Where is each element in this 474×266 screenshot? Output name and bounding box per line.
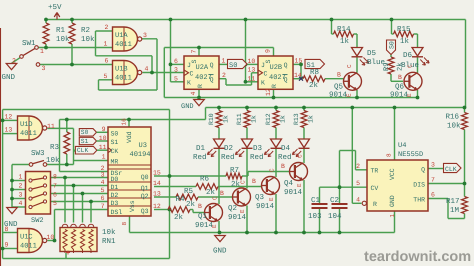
wire S0 flag stub [97,131,109,133]
wire +5V right drop [465,20,467,108]
wire U2A K [171,81,185,83]
net flag S1 U3 [79,137,96,144]
svg-text:8: 8 [53,174,57,181]
svg-text:D5: D5 [367,50,377,58]
wire R14 to D5 [354,33,358,35]
svg-text:R8: R8 [310,68,319,77]
node R3 bottom [65,163,69,167]
svg-text:40194: 40194 [130,151,151,159]
nand U1B [113,61,138,85]
svg-text:9014: 9014 [228,213,247,222]
node R12 rail [274,106,278,110]
wire THR link [428,198,448,200]
svg-text:D4: D4 [281,145,291,153]
svg-text:R1: R1 [56,27,66,35]
svg-text:5: 5 [53,200,57,207]
wire MR [74,160,109,162]
wire U1D out [48,127,74,129]
svg-text:1: 1 [389,214,396,218]
wire R17 top [464,184,466,197]
svg-text:4011: 4011 [115,75,132,83]
wire U1B out to U2A clock [143,72,185,74]
svg-text:D3: D3 [253,144,263,153]
wire SW1 common to GND [12,58,21,64]
net flag S0 mid [228,59,248,68]
resistor R13 [301,111,307,128]
node U1B out [150,71,154,75]
wire R6 to Q3 base [218,186,262,188]
wire SW2 pin4 [12,206,26,208]
node U2A Q flag [244,63,248,67]
svg-text:D1: D1 [196,145,206,153]
wire R11 to D2 [246,128,248,140]
svg-text:R14: R14 [337,26,351,34]
svg-text:10k: 10k [46,156,60,165]
svg-text:R12: R12 [265,113,272,125]
svg-text:2: 2 [222,72,226,79]
wire U2A S pin [198,48,200,57]
svg-text:11: 11 [248,76,256,83]
wire U2B S pin [273,48,275,57]
svg-text:7: 7 [53,183,57,190]
transistor Q3 9014 [262,177,280,195]
svg-text:2: 2 [19,183,23,190]
resistor R15 [394,31,414,37]
svg-text:104: 104 [328,212,342,221]
svg-text:C1: C1 [311,196,321,205]
wire U2B R pin to GND rail [273,89,275,97]
transistor Q5 9014 [344,72,362,90]
node U2A S [197,46,201,50]
ground U2A reset [194,100,205,106]
wire U1A out feedback right [141,38,158,40]
svg-text:C: C [297,154,304,158]
svg-text:1k: 1k [400,37,410,46]
svg-text:R7: R7 [230,167,239,175]
wire C1 top lead [319,187,321,203]
resistor R9 [388,57,394,74]
svg-text:U4: U4 [398,142,406,150]
wire RN1 drop b [73,186,75,223]
wire SW2 pin3 [12,198,26,200]
svg-text:Red: Red [250,153,264,162]
svg-text:9014: 9014 [256,202,275,211]
svg-text:D0: D0 [111,176,119,183]
svg-text:GND: GND [389,195,396,207]
node DIS R16 R17 [463,182,467,186]
node R15 tap [390,18,394,22]
wire U1D in13 [3,133,18,135]
svg-text:16: 16 [121,118,128,126]
wire U2A Qbar right [219,78,226,80]
node U1C out DSl [53,239,57,243]
svg-text:Q4: Q4 [284,179,294,188]
svg-text:1k: 1k [223,115,230,123]
wire RN1 drop a [64,178,66,223]
svg-text:teardownit.com: teardownit.com [364,249,471,265]
svg-text:K: K [261,80,265,87]
wire U2A R pin to GND rail [198,89,200,97]
svg-text:1: 1 [222,58,226,65]
node R16 rail [463,106,467,110]
svg-text:10k: 10k [447,122,461,131]
svg-text:1: 1 [19,174,23,181]
svg-text:GND: GND [213,247,227,256]
wire SW3 left [12,164,29,166]
svg-text:6: 6 [174,58,178,65]
svg-text:NE555D: NE555D [398,151,423,159]
wire U1C in8 [3,232,18,234]
svg-text:K: K [187,80,191,87]
wire +5V mid rail left part [60,119,206,121]
svg-text:S0: S0 [389,41,396,49]
wire R10 top [218,108,220,111]
LED D4 [299,139,310,148]
wire set line drop to GND [163,48,165,98]
node U2B K [244,80,248,84]
svg-text:3: 3 [143,32,147,39]
wire Q0 row [154,175,226,177]
wire R8 left lead [301,78,303,80]
wire R1 top [45,20,47,24]
wire feedback left [96,55,153,57]
svg-text:5: 5 [174,76,178,83]
svg-text:B: B [252,178,256,185]
wire R3 bottom stub [66,154,68,165]
wire D0 row [51,177,109,179]
node SW2 p1 [10,179,14,183]
wire Q3 row to R4 [154,209,168,211]
svg-text:R11: R11 [236,113,243,125]
wire D1 to Q1 collector [218,149,220,204]
transistor Q4 9014 [290,163,308,181]
svg-text:5: 5 [356,180,360,187]
LED D1 [214,139,225,148]
svg-text:11: 11 [99,144,107,151]
wire U2A Qbar jog [225,79,227,85]
wire U2A J [171,63,185,65]
node U1D in tie [1,119,5,123]
wire R2 bottom [71,44,73,65]
svg-text:9: 9 [265,49,272,53]
dip switch SW2 [26,172,51,215]
svg-text:S: S [265,59,272,63]
transistor Q6 9014 [404,72,422,90]
svg-text:4027: 4027 [269,74,286,82]
wire Q6 emitter to GND rail [417,90,419,98]
svg-text:Red: Red [193,153,207,162]
svg-text:U1C: U1C [20,234,33,242]
wire R11 top [246,108,248,111]
svg-text:CK: CK [111,148,119,155]
transistor Q2 9014 [233,188,251,206]
svg-text:103: 103 [308,212,322,221]
wire R2 top [71,20,73,24]
node R10 rail [217,106,221,110]
RN1 common pin marker [66,251,70,255]
svg-text:C: C [346,64,353,68]
svg-text:S: S [191,59,198,63]
timer U4 NE555D [367,160,428,211]
wire U2B J [246,63,259,65]
node U4 vcc rail [393,106,397,110]
resistor R10 [216,111,222,128]
svg-text:13: 13 [153,191,161,198]
wire +5V top rail [46,19,466,21]
node C1 gnd [318,231,322,235]
wire U3 Vss pin [129,216,131,233]
wire U2B K [246,81,259,83]
node U1C in tie [1,247,5,251]
svg-text:R16: R16 [446,113,460,122]
node R11 rail [245,106,249,110]
svg-text:4011: 4011 [20,243,37,251]
wire feedback up to U1A.2 [95,31,97,56]
svg-text:3: 3 [174,67,178,74]
svg-text:S0: S0 [229,62,237,70]
svg-text:4: 4 [190,92,197,96]
svg-text:E: E [268,197,275,201]
flip-flop U2A 4027 [184,56,219,89]
node R3 top [65,118,69,122]
wire SW1 pos3 row to U1B.6 [40,64,113,66]
svg-text:12: 12 [153,203,161,210]
node Q3 emitter gnd [274,231,278,235]
wire U3 Vdd pin [128,120,130,128]
node Q4 emitter gnd [302,231,306,235]
svg-text:10k: 10k [102,228,116,237]
node D2 RN1 [81,192,85,196]
wire Q1 emitter [218,221,220,233]
svg-text:2k: 2k [186,200,196,209]
svg-text:D6: D6 [403,51,413,60]
net flag CLK U3 [75,146,97,154]
svg-text:4: 4 [19,200,23,207]
wire SW2 pin1 [12,180,26,182]
node J/K tie U2A top [169,18,173,22]
svg-text:Q3: Q3 [141,208,149,215]
svg-text:9014: 9014 [284,188,303,197]
svg-text:R3: R3 [50,143,60,152]
svg-text:1: 1 [102,154,106,161]
wire Q4 emitter [303,180,305,233]
svg-text:S0: S0 [111,130,119,137]
wire GND bottom rail [130,232,395,234]
svg-text:2: 2 [105,24,109,31]
svg-text:3: 3 [42,65,46,72]
svg-text:C: C [264,71,268,78]
wire R12 to D3 [275,128,277,140]
svg-text:R: R [197,84,204,88]
svg-text:B: B [220,190,224,197]
wire R3 top stub [66,120,68,133]
svg-text:10: 10 [47,234,55,241]
wire U2B Q to S1 [292,63,301,65]
svg-text:R5: R5 [184,188,194,196]
wire U4 reset feed drop [351,108,353,204]
svg-text:10: 10 [99,135,107,142]
svg-text:THR: THR [413,197,425,204]
svg-text:9014: 9014 [329,91,348,100]
svg-text:1k: 1k [280,115,287,123]
svg-text:2: 2 [356,163,360,170]
svg-text:10: 10 [248,58,256,65]
wire U1A out up to U1B.5 [98,80,100,90]
node Q0 inverter tap [168,174,172,178]
LED D6 [412,48,423,57]
svg-text:R17: R17 [446,198,460,206]
svg-text:C: C [190,71,194,78]
svg-text:7: 7 [431,177,435,184]
wire +5V mid rail jog [205,108,207,120]
svg-text:VCC: VCC [389,168,396,180]
svg-text:4011: 4011 [20,130,37,138]
svg-text:15: 15 [153,170,161,177]
svg-text:Q: Q [210,62,214,69]
wire R15 drop [391,20,393,35]
node R13 rail [302,106,306,110]
svg-text:R6: R6 [200,175,210,184]
node R2 top rail [70,18,74,22]
ground GND SW2 [7,208,18,214]
resistor R6 [196,184,218,190]
wire R17 bottom [464,214,466,219]
wire caps line to CV [320,186,368,188]
svg-text:6: 6 [105,58,109,65]
svg-text:1M: 1M [450,207,460,215]
wire Q5 emitter to GND rail [356,90,358,98]
node C2 gnd [338,231,342,235]
svg-text:C: C [269,168,276,172]
svg-text:8: 8 [5,226,9,233]
wire R15 to D6 [414,33,418,35]
wire R1 bottom to SW1/U1A.1 [45,44,47,48]
svg-text:DIS: DIS [413,182,425,189]
resistor R16 [462,113,468,130]
node U3 Vdd [127,118,131,122]
svg-text:U2B: U2B [270,64,283,72]
wire DSl row [55,209,109,211]
wire C2 top lead [339,151,341,204]
resistor R12 [273,111,279,128]
resistor R3 [64,132,70,154]
svg-text:10k: 10k [81,35,95,44]
transistor Q1 9014 [205,204,223,222]
svg-text:R4: R4 [176,196,186,204]
node U2B R gnd [272,96,276,100]
wire U1D input tie [2,110,4,259]
nand U1D [18,116,43,140]
sheet frame left edge [0,28,2,266]
wire U1A out down [156,39,158,90]
node SW2 p3 [10,197,14,201]
wire J/K tie U2B [245,20,247,82]
wire input line top [3,109,170,111]
wire D5 to Q5 collector [356,57,358,73]
node R4 row tap [168,208,172,212]
svg-text:R13: R13 [293,113,300,125]
svg-text:5: 5 [104,73,108,80]
wire TR branch [340,150,356,152]
svg-text:C: C [240,180,247,184]
node reset feed [350,106,354,110]
svg-text:9: 9 [5,242,9,249]
svg-text:9014: 9014 [390,91,409,100]
node R1 top rail [44,18,48,22]
wire C1 bottom lead [319,209,321,233]
svg-text:S1: S1 [81,138,89,145]
wire D3 row [51,201,109,203]
svg-text:15: 15 [295,58,303,65]
svg-text:CLK: CLK [77,147,89,154]
wire R4 jog to Q1 base [190,209,193,211]
svg-text:8: 8 [386,153,393,157]
wire U4 GND pin [394,211,396,233]
svg-text:GND: GND [181,103,194,111]
svg-text:Vdd: Vdd [126,131,133,143]
node J/K tie U2B top [244,18,248,22]
svg-text:Q: Q [284,62,288,69]
wire R13 top [303,108,305,111]
svg-text:12: 12 [5,114,13,121]
LED D5 [352,48,363,57]
svg-text:Red: Red [278,153,292,162]
svg-text:6: 6 [53,192,57,199]
wire S1 flag stub [97,140,109,142]
wire CLK flag stub [74,149,76,151]
svg-text:R: R [271,84,278,88]
svg-text:B: B [281,163,285,170]
svg-text:13: 13 [5,127,13,134]
svg-text:1k: 1k [340,37,350,46]
wire D2 to Q2 collector [246,149,248,189]
capacitor C2 [332,203,348,205]
svg-text:3: 3 [19,192,23,199]
net flag S0 vertical [387,40,396,55]
svg-text:R15: R15 [397,26,411,34]
svg-text:14: 14 [153,180,161,187]
wire D1 row [51,185,109,187]
wire Q1 row to R6 [154,186,196,188]
svg-text:R2: R2 [81,26,90,35]
resistor R2 [69,23,75,44]
node U2A R gnd [197,96,201,100]
shift register U3 40194 [108,127,151,216]
svg-text:DSl: DSl [111,209,123,216]
svg-text:E: E [239,209,246,213]
svg-text:13: 13 [248,67,256,74]
svg-text:Q2: Q2 [228,204,237,213]
power +5V [54,13,60,20]
svg-text:2k: 2k [174,213,184,222]
svg-text:9: 9 [102,126,106,133]
svg-text:Q1: Q1 [141,185,149,192]
svg-text:8: 8 [121,222,128,226]
resistor R1 [43,23,49,44]
wire CLK flag stub [74,150,77,152]
svg-text:B: B [198,203,202,210]
LED D2 [242,139,253,148]
wire R9 to Q6 base [390,74,392,81]
nand U1C [18,229,43,253]
wire U2B Qbar stub [292,78,301,80]
resistor R14 [334,31,354,37]
svg-text:1k: 1k [308,115,315,123]
svg-text:U1D: U1D [20,121,33,129]
wire CLK net vertical [73,128,75,164]
flip-flop U2B 4027 [258,56,293,89]
node R1 SW1 [44,46,48,50]
